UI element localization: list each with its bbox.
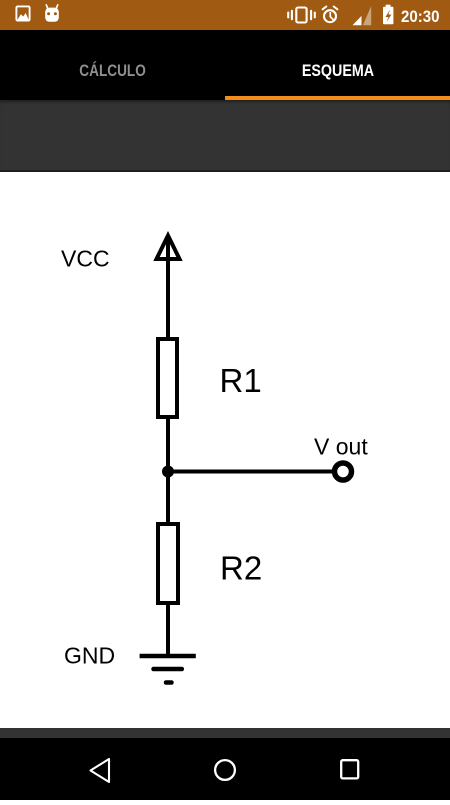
dark toolbar strip <box>0 100 450 172</box>
svg-text:20:30: 20:30 <box>401 8 440 26</box>
svg-text:V out: V out <box>314 434 368 460</box>
nav recents button <box>341 760 358 778</box>
terminal V out <box>335 463 352 480</box>
dark strip above nav <box>0 728 450 738</box>
wire junction to V out <box>168 470 334 474</box>
tab CALCULO <box>0 30 225 96</box>
alarm clock icon <box>323 7 338 23</box>
wire VCC to R1 <box>166 236 170 339</box>
resistor R2 <box>158 524 178 603</box>
white schematic canvas <box>0 172 450 728</box>
tab ESQUEMA <box>225 30 450 96</box>
vibrate icon <box>288 8 315 23</box>
svg-text:R2: R2 <box>220 550 262 587</box>
ground bar 2 <box>154 667 182 672</box>
svg-text:VCC: VCC <box>61 246 110 272</box>
status bar <box>0 0 450 30</box>
wire R1 to R2 <box>166 417 170 524</box>
node junction dot <box>162 466 174 478</box>
ground bar 1 <box>140 654 196 659</box>
android robot head icon <box>45 5 59 22</box>
VCC arrow head <box>157 236 180 260</box>
navigation bar <box>0 738 450 800</box>
tab bar <box>0 30 450 100</box>
signal strength triangle <box>353 6 372 25</box>
ground bar 3 <box>166 680 172 685</box>
nav back button <box>91 759 110 782</box>
resistor R1 <box>158 339 177 417</box>
screenshot notification icon <box>16 6 29 20</box>
svg-text:GND: GND <box>64 643 115 669</box>
wire R2 to GND <box>166 603 170 656</box>
nav home button <box>215 760 235 780</box>
battery charging icon <box>383 5 393 25</box>
svg-text:R1: R1 <box>220 362 262 399</box>
orange tab underline <box>225 96 450 100</box>
